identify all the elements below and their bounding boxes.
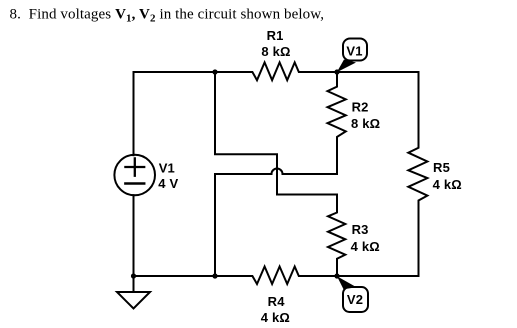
svg-text:R4: R4	[268, 294, 286, 309]
svg-text:8 kΩ: 8 kΩ	[351, 116, 380, 131]
svg-text:V1: V1	[159, 161, 175, 176]
svg-text:R2: R2	[352, 100, 369, 115]
svg-text:8 kΩ: 8 kΩ	[261, 44, 290, 59]
svg-text:4 V: 4 V	[158, 176, 178, 191]
svg-text:V2: V2	[347, 292, 363, 307]
svg-text:V1: V1	[346, 44, 362, 59]
svg-text:4 kΩ: 4 kΩ	[261, 310, 290, 325]
svg-text:R5: R5	[433, 160, 450, 175]
svg-text:R1: R1	[267, 28, 284, 43]
svg-text:4 kΩ: 4 kΩ	[433, 177, 462, 192]
svg-text:4 kΩ: 4 kΩ	[351, 239, 380, 254]
svg-text:8. Find voltages V1, V2 in th: 8. Find voltages V1, V2 in the circuit s…	[10, 7, 325, 25]
svg-text:R3: R3	[352, 222, 369, 237]
